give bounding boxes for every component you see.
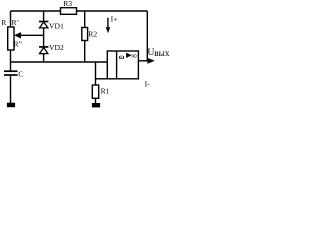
svg-text:R3: R3 (63, 0, 72, 8)
svg-text:ω: ω (119, 52, 125, 61)
svg-text:VD2: VD2 (49, 43, 64, 52)
wire between VD1 and VD2 (43, 28, 45, 47)
resistor R (potentiometer body) (8, 27, 14, 50)
potentiometer wiper arrow (14, 32, 21, 38)
wire right rail (146, 11, 148, 61)
output arrowhead (147, 58, 154, 64)
wire left vertical from rail to potentiometer top (10, 11, 12, 27)
svg-text:R’: R’ (12, 18, 20, 27)
I+ arrowhead (106, 27, 111, 33)
capacitor C plates (4, 70, 18, 72)
svg-text:I-: I- (145, 79, 151, 88)
svg-text:R1: R1 (101, 86, 110, 95)
resistor R2 (82, 28, 88, 41)
wire R2 bottom lead (84, 41, 86, 63)
wire potentiometer bottom lead (10, 50, 12, 62)
op-amp U1 divider (116, 51, 118, 79)
svg-text:I+: I+ (111, 14, 119, 23)
wire I+ annotation line (107, 18, 109, 29)
diode VD1 cathode bar (39, 21, 48, 23)
svg-text:C: C (18, 70, 23, 79)
capacitor C top stem (10, 62, 12, 71)
svg-text:вых: вых (154, 48, 170, 58)
capacitor C bottom stem (10, 75, 12, 103)
wire wiper to diode junction (21, 34, 44, 36)
wire top rail left of R3 (11, 10, 61, 12)
diode VD2 triangle (40, 48, 48, 54)
wire R1 bottom lead (95, 98, 97, 103)
wire R2 top lead (84, 11, 86, 28)
wire output (138, 60, 147, 62)
svg-text:R”: R” (14, 40, 22, 49)
resistor R3 (61, 8, 77, 15)
wire R1 top lead from C-node (95, 62, 97, 85)
wire C-node horizontal (11, 61, 108, 63)
op-amp U1 body (107, 51, 138, 79)
wire VD2 bottom to C-node (43, 54, 45, 62)
wire lower input to op-amp bottom corner (96, 78, 108, 80)
svg-text:∞: ∞ (131, 51, 137, 61)
ground under C (7, 103, 15, 108)
op-amp gain triangle glyph (126, 53, 131, 58)
diode VD2 cathode bar (39, 46, 48, 48)
diode VD1 triangle (40, 22, 48, 28)
wire top rail right of R3 (77, 10, 148, 12)
svg-text:R2: R2 (88, 30, 97, 39)
wire diode branch top (43, 11, 45, 22)
resistor R1 (92, 85, 98, 98)
ground under R1 (92, 103, 100, 107)
svg-text:VD1: VD1 (49, 22, 64, 31)
